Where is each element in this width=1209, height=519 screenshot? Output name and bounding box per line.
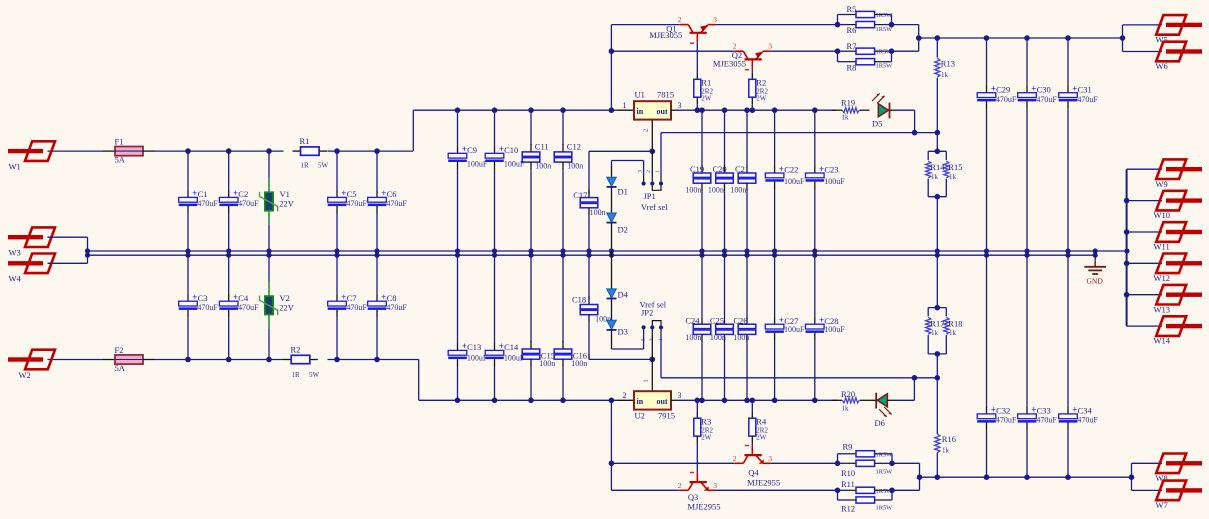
resistor R12 1R 5W [838,488,895,514]
svg-text:1R5W: 1R5W [876,468,894,475]
svg-text:2W: 2W [756,434,767,442]
svg-text:1k: 1k [942,447,950,455]
svg-text:1k: 1k [842,405,850,413]
svg-text:R10: R10 [841,468,855,478]
svg-text:+: + [381,188,386,198]
wire U2 feed to Q3 Q4 [609,400,735,490]
svg-text:W13: W13 [1154,304,1171,314]
svg-text:22V: 22V [279,199,295,209]
svg-text:100n: 100n [685,333,701,342]
resistor R9 1R 5W [835,441,893,466]
svg-text:1k: 1k [931,173,939,181]
svg-text:R3: R3 [701,417,711,427]
svg-text:1R5W: 1R5W [876,63,894,70]
svg-text:F1: F1 [115,137,124,147]
svg-text:W7: W7 [1156,500,1168,510]
svg-text:22V: 22V [279,302,295,312]
varistor V1 22V [260,151,295,255]
svg-text:R12: R12 [841,504,855,514]
svg-text:+: + [819,315,824,325]
wire Vref sel net (JP1 pin1) [661,130,940,176]
svg-text:470uF: 470uF [1036,416,1057,425]
connector W2 [8,350,55,380]
svg-text:C25: C25 [710,316,724,326]
capacitor C21 100n [730,110,755,251]
svg-text:out: out [657,107,668,116]
svg-text:D4: D4 [618,290,629,300]
svg-text:R7: R7 [847,41,857,51]
capacitor C7 470uF [328,251,368,360]
svg-text:+: + [1031,84,1036,94]
svg-text:W4: W4 [9,274,22,284]
capacitor C28 100uF [806,255,846,400]
resistor R3 2R2 2W [694,400,714,443]
svg-text:470uF: 470uF [346,303,367,312]
wire net A C17 to U1 pin2 [589,151,652,157]
capacitor C25 100n [710,255,733,400]
svg-text:C26: C26 [733,316,747,326]
svg-text:R9: R9 [843,441,853,451]
resistor R7 1R 5W [835,41,893,62]
svg-text:470uF: 470uF [386,303,407,312]
svg-text:W10: W10 [1154,210,1171,220]
transistor Q1 MJE3055 [649,15,717,43]
svg-text:100uF: 100uF [824,177,845,186]
capacitor C31 470uF [1059,38,1099,255]
svg-text:Q3: Q3 [688,492,698,502]
svg-text:GND: GND [1087,277,1104,286]
resistor R8 1R 5W [838,48,895,72]
svg-text:W14: W14 [1154,336,1171,346]
svg-text:C30: C30 [1037,84,1051,94]
svg-text:W1: W1 [9,162,21,172]
svg-text:C31: C31 [1078,84,1092,94]
svg-text:R8: R8 [847,62,857,72]
svg-text:+: + [233,292,238,302]
svg-text:100n: 100n [539,359,555,368]
svg-text:+: + [381,292,386,302]
capacitor C26 100n [733,255,755,400]
svg-text:470uF: 470uF [1077,416,1098,425]
svg-text:2: 2 [646,170,652,173]
connector W12 [1154,254,1203,283]
jumper JP1 Vref sel [638,170,669,212]
LED D6 [866,393,897,428]
transistor Q3 MJE2955 [678,473,721,512]
svg-text:W6: W6 [1156,61,1168,71]
svg-text:F2: F2 [115,345,124,355]
svg-text:C17: C17 [573,190,587,200]
svg-text:1R5W: 1R5W [876,451,894,458]
svg-text:C10: C10 [504,145,518,155]
svg-text:2: 2 [678,481,682,490]
svg-text:C6: C6 [387,189,397,199]
svg-text:C18: C18 [572,295,586,305]
resistor R1 1R 5W [293,136,329,169]
svg-text:JP1: JP1 [644,191,656,201]
capacitor C27 100uF [765,255,805,400]
svg-text:C1: C1 [198,189,208,199]
svg-text:W9: W9 [1156,179,1168,189]
resistor R2 1R 5W [283,344,319,379]
svg-text:100uF: 100uF [784,325,805,334]
wire Q1 Q2 collector feed [609,25,735,111]
svg-text:MJE2955: MJE2955 [747,478,780,488]
svg-text:470uF: 470uF [238,199,259,208]
capacitor C24 100n [685,255,710,400]
resistor R2b 2R2 2W [749,72,769,110]
diode D3 [607,320,628,349]
connector W14 [1154,316,1203,345]
svg-text:D1: D1 [618,187,628,197]
wire Q1 base to R1b [696,43,698,73]
capacitor C11 100n [522,110,551,255]
svg-text:+: + [192,188,197,198]
capacitor C23 100uF [806,110,846,251]
capacitor C17 100n [573,157,605,255]
svg-text:V1: V1 [280,189,290,199]
wire Q1 emitter to R5 R6 [716,24,838,26]
varistor V2 22V [260,251,295,360]
svg-text:D2: D2 [618,225,628,235]
capacitor C12 100n [554,110,583,255]
svg-text:C13: C13 [467,342,481,352]
svg-text:5W: 5W [318,162,329,170]
svg-text:+: + [341,188,346,198]
wire U1 input rail [413,107,634,113]
svg-text:in: in [637,397,644,406]
resistor R13 1k [935,38,955,133]
svg-text:100n: 100n [567,161,583,170]
capacitor C4 470uF [219,251,259,360]
svg-text:+: + [1072,405,1077,415]
capacitor C3 470uF [179,251,219,360]
svg-text:JP2: JP2 [641,307,653,317]
svg-text:+: + [462,144,467,154]
svg-text:+: + [779,164,784,174]
diode D4 [607,251,629,320]
svg-text:+: + [499,144,504,154]
svg-text:3: 3 [678,391,682,400]
svg-text:R15: R15 [948,162,962,172]
svg-text:470uF: 470uF [1077,95,1098,104]
regulator U1 7815 [623,90,682,132]
svg-text:470uF: 470uF [197,199,218,208]
svg-text:R2: R2 [756,78,766,88]
wire Q2 emitter to R7 R8 [771,50,838,52]
jumper JP2 Vref sel [640,299,667,341]
svg-text:+: + [233,188,238,198]
capacitor C5 470uF [328,151,368,255]
svg-text:C5: C5 [347,189,357,199]
svg-text:Q4: Q4 [748,468,759,478]
wire U1 ground pin to JP1 [650,120,656,176]
svg-text:3: 3 [638,170,644,173]
svg-text:2W: 2W [701,95,712,103]
svg-text:470uF: 470uF [996,95,1017,104]
svg-text:MJE3055: MJE3055 [649,30,682,40]
wire Q2 base to R2b [751,69,753,72]
svg-text:C20: C20 [713,164,727,174]
svg-text:C4: C4 [238,293,249,303]
svg-text:R17: R17 [930,318,944,328]
wire JP2 pin2 to U2 ground pin [589,335,655,391]
capacitor C15 100n [522,251,555,400]
svg-text:R5: R5 [847,4,857,14]
svg-text:+: + [192,292,197,302]
svg-text:R14: R14 [930,162,945,172]
diode D1 [607,166,628,213]
wire W1 input rail (+V unregulated) [48,110,414,154]
svg-text:1R: 1R [301,162,310,170]
wire output bus W9-W14 [1124,169,1162,326]
svg-text:C21: C21 [735,164,749,174]
resistor R20 1k [832,389,866,413]
svg-text:3: 3 [768,454,772,463]
svg-text:5A: 5A [115,363,126,373]
connector W5 [1156,15,1203,44]
svg-text:1R5W: 1R5W [876,12,894,19]
ground GND [1084,255,1106,285]
svg-text:R6: R6 [847,25,857,35]
connector W9 [1156,159,1203,188]
capacitor C9 100uF [448,110,488,255]
svg-text:R16: R16 [942,434,956,444]
svg-text:7915: 7915 [658,411,675,421]
svg-text:3: 3 [641,338,647,341]
svg-text:470uF: 470uF [238,303,259,312]
svg-text:7815: 7815 [657,90,674,100]
svg-text:100n: 100n [590,208,606,217]
svg-text:2: 2 [678,15,682,24]
capacitor C29 470uF [977,38,1017,255]
wire GND bus rails [85,248,1130,257]
svg-text:R18: R18 [948,318,962,328]
capacitor C22 100uF [765,110,805,251]
resistor R19 1k [832,98,870,122]
capacitor C8 470uF [368,251,408,360]
connector W11 [1154,222,1203,251]
svg-text:in: in [637,107,644,116]
svg-text:U1: U1 [635,90,645,100]
resistor R11 1R 5W [835,479,893,500]
svg-text:5A: 5A [115,155,126,165]
svg-text:W3: W3 [9,247,21,257]
connector W13 [1154,285,1203,314]
svg-text:R13: R13 [941,58,955,68]
resistor R14 1k / R15 1k parallel [926,133,963,256]
regulator U2 7915 [623,379,682,420]
svg-text:C32: C32 [996,406,1010,416]
resistor R10 1R 5W [838,454,895,478]
wire D6 to Vref net [896,375,917,400]
wire U2 output rail (-15V) [671,398,838,404]
capacitor C32 470uF [977,255,1017,477]
svg-text:2: 2 [623,391,627,400]
svg-text:+: + [341,292,346,302]
svg-text:C22: C22 [784,165,798,175]
svg-text:+: + [991,405,996,415]
svg-text:470uF: 470uF [386,199,407,208]
wire +V output rail W5 W6 [919,25,1162,52]
svg-text:R2: R2 [291,344,301,354]
svg-text:MJE2955: MJE2955 [688,502,721,512]
svg-text:C2: C2 [238,189,248,199]
svg-text:5W: 5W [309,371,320,379]
svg-text:100uF: 100uF [824,325,845,334]
capacitor C33 470uF [1018,255,1058,477]
svg-text:2: 2 [733,454,737,463]
svg-text:C7: C7 [347,293,357,303]
resistor R4 2R2 2W [749,400,769,443]
svg-text:C9: C9 [467,145,477,155]
capacitor C18 100n [572,251,611,359]
capacitor C1 470uF [179,151,219,255]
wire D3 to JP2 pin3 [612,335,644,349]
fuse F1 5A [103,137,155,165]
svg-text:1R5W: 1R5W [876,26,894,33]
connector W3 [8,227,55,257]
resistor R5 1R 5W [835,4,893,27]
transistor Q4 MJE2955 [733,446,780,488]
svg-text:100n: 100n [730,185,746,194]
svg-text:R19: R19 [841,98,855,108]
wire -V output rail W7 W8 [920,463,1163,490]
svg-text:+: + [462,341,467,351]
svg-text:C11: C11 [535,141,549,151]
svg-text:C29: C29 [996,84,1010,94]
svg-text:470uF: 470uF [346,199,367,208]
wire Q4 base to R4 [751,443,753,446]
wire Vref sel net (JP2 pin1) [661,335,940,381]
transistor Q2 MJE3055 [713,41,772,69]
svg-text:3: 3 [713,481,717,490]
wire R9-R12 to -V output rail [892,463,922,490]
svg-text:1: 1 [655,170,661,173]
diode D2 [607,213,628,255]
svg-text:2W: 2W [756,95,767,103]
svg-text:C12: C12 [567,141,581,151]
svg-text:1k: 1k [941,71,949,79]
svg-text:V2: V2 [280,293,290,303]
wire U2 input rail [419,398,634,404]
wire D5 to Vref net [896,110,917,135]
svg-text:470uF: 470uF [197,303,218,312]
wire U1 output rail (+15V) [671,107,836,113]
LED D5 [872,93,896,128]
svg-text:1k: 1k [842,113,850,121]
wire R5R6 R7R8 to +V output rail [892,25,922,52]
wire Q4 emitter to R9 R10 [771,462,838,464]
capacitor C34 470uF [1059,255,1099,477]
connector W6 [1156,42,1203,71]
svg-text:1k: 1k [949,173,957,181]
svg-text:Vref sel: Vref sel [641,202,668,212]
wire W3 W4 to GND bus [48,237,88,263]
svg-text:100n: 100n [571,359,587,368]
capacitor C19 100n [685,110,710,251]
svg-text:3: 3 [678,101,682,110]
svg-text:1k: 1k [949,329,957,337]
resistor R1b 2R2 2W [694,72,714,110]
capacitor C30 470uF [1018,38,1058,255]
svg-text:+: + [779,315,784,325]
svg-text:100n: 100n [685,185,701,194]
svg-text:+: + [499,341,504,351]
svg-text:100uF: 100uF [467,159,488,168]
svg-text:1R5W: 1R5W [876,505,894,512]
svg-text:R4: R4 [756,417,767,427]
svg-text:R1: R1 [300,136,310,146]
svg-text:1k: 1k [931,329,939,337]
svg-text:1: 1 [643,379,650,382]
svg-text:C14: C14 [504,342,519,352]
svg-text:C23: C23 [824,165,838,175]
svg-text:R20: R20 [841,389,855,399]
svg-text:1R: 1R [292,371,301,379]
capacitor C14 100uF [485,251,525,400]
svg-text:W12: W12 [1154,273,1171,283]
svg-text:C3: C3 [198,293,208,303]
svg-text:+: + [991,84,996,94]
svg-text:out: out [657,397,668,406]
capacitor C6 470uF [368,151,408,255]
capacitor C10 100uF [485,110,525,255]
svg-text:W11: W11 [1154,242,1170,252]
svg-text:1: 1 [623,101,627,110]
svg-text:D6: D6 [875,418,885,428]
svg-text:100n: 100n [535,161,551,170]
resistor R17 1k / R18 1k parallel [926,255,963,378]
svg-text:100uF: 100uF [784,177,805,186]
capacitor C13 100uF [448,251,488,400]
svg-text:D5: D5 [872,118,882,128]
wire W2 input rail (-V unregulated) [48,357,419,401]
svg-text:2W: 2W [701,434,712,442]
svg-text:100n: 100n [708,185,724,194]
connector W8 [1156,454,1203,483]
svg-text:D3: D3 [618,327,628,337]
svg-text:U2: U2 [635,411,645,421]
svg-text:R1: R1 [701,78,711,88]
svg-text:W2: W2 [19,370,31,380]
svg-text:+: + [819,164,824,174]
svg-text:+: + [1072,84,1077,94]
svg-text:100n: 100n [733,333,749,342]
fuse F2 5A [103,345,155,373]
resistor R6 1R 5W [838,15,895,36]
svg-text:C33: C33 [1037,406,1051,416]
svg-text:100n: 100n [710,333,726,342]
svg-text:470uF: 470uF [996,416,1017,425]
svg-text:C24: C24 [685,316,700,326]
svg-text:R11: R11 [841,479,855,489]
connector W4 [8,254,55,284]
svg-text:3: 3 [768,41,772,50]
svg-text:470uF: 470uF [1036,95,1057,104]
svg-text:MJE3055: MJE3055 [713,59,746,69]
wire Q3 emitter to R11 R12 [716,489,838,491]
svg-text:C19: C19 [690,164,704,174]
capacitor C16 100n [554,251,587,400]
wire net B D1 to JP1 pin3 [612,161,644,177]
connector W1 [8,141,55,171]
wire Q3 base to R3 [696,443,698,473]
connector W10 [1154,191,1203,220]
resistor R16 1k [935,378,956,477]
svg-text:2: 2 [643,129,650,132]
svg-text:+: + [1031,405,1036,415]
